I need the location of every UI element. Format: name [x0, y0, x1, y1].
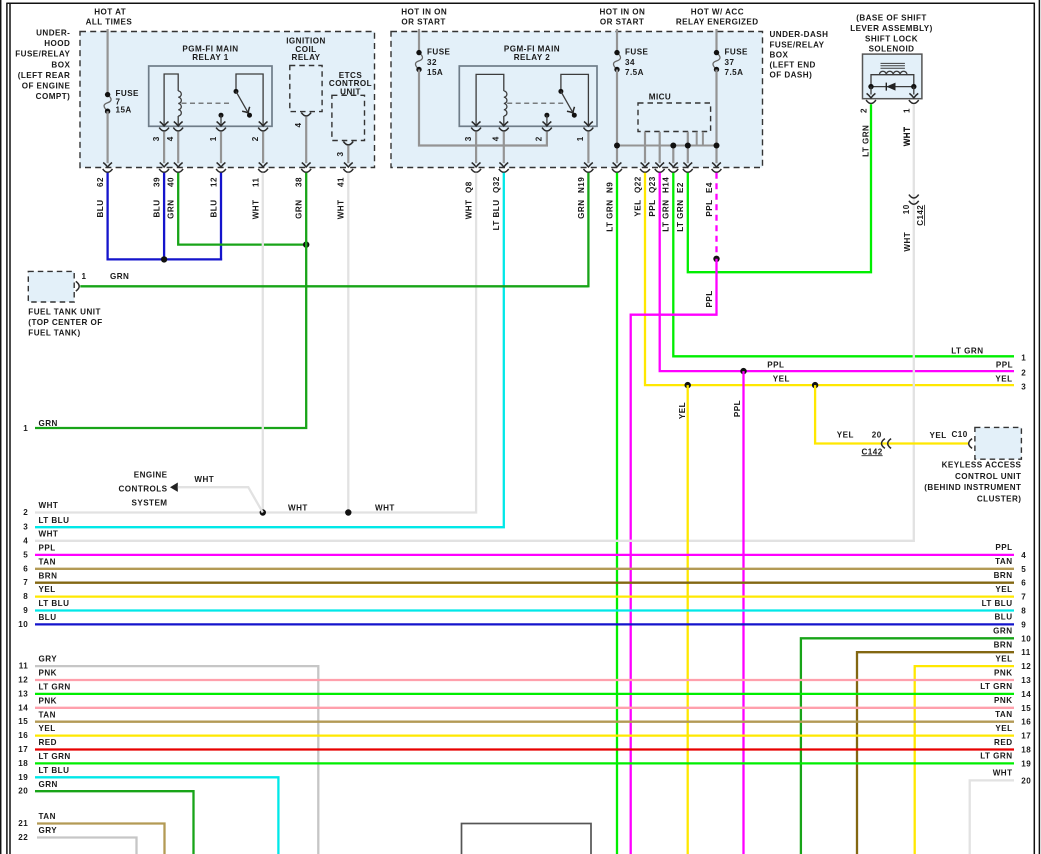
- wire YEL down from row 3 left: [687, 385, 689, 854]
- wire GRN from N19: [587, 173, 589, 288]
- svg-text:TAN: TAN: [995, 557, 1012, 566]
- svg-text:20: 20: [872, 430, 882, 439]
- svg-text:UNDER-DASH: UNDER-DASH: [770, 30, 829, 39]
- fuse 34 label: [625, 48, 649, 77]
- wire YEL to keyless access unit: [815, 385, 968, 443]
- svg-text:4: 4: [23, 536, 28, 545]
- svg-text:BRN: BRN: [994, 571, 1013, 580]
- row 13 LT GRN full width: [18, 682, 1031, 699]
- svg-text:SYSTEM: SYSTEM: [132, 499, 168, 508]
- svg-text:LT BLU: LT BLU: [39, 766, 70, 775]
- svg-text:FUEL TANK): FUEL TANK): [28, 329, 80, 338]
- svg-text:ALL TIMES: ALL TIMES: [86, 18, 133, 27]
- relay 1 pin 1 contact: [219, 113, 224, 126]
- svg-text:11: 11: [252, 177, 261, 187]
- svg-text:4: 4: [492, 136, 501, 141]
- svg-text:(LEFT REAR: (LEFT REAR: [18, 71, 71, 80]
- svg-text:22: 22: [18, 833, 28, 842]
- svg-text:16: 16: [18, 731, 28, 740]
- fuel tank unit box: [28, 271, 74, 302]
- svg-text:MICU: MICU: [649, 93, 671, 102]
- wires relay 1 pins to box bottom: [160, 132, 268, 167]
- svg-text:LT GRN: LT GRN: [951, 346, 983, 355]
- wire PPL E4 reroute: [631, 259, 717, 854]
- svg-text:YEL: YEL: [837, 430, 854, 439]
- splice PPL E4: [713, 256, 719, 262]
- wire GRN from 38 to row 1: [35, 173, 306, 428]
- solenoid coil: [879, 71, 907, 74]
- fuel tank unit label: [28, 308, 102, 338]
- svg-text:LT BLU: LT BLU: [39, 516, 70, 525]
- svg-text:PPL: PPL: [995, 543, 1012, 552]
- svg-text:LT GRN: LT GRN: [662, 200, 671, 232]
- svg-text:LT GRN: LT GRN: [980, 752, 1012, 761]
- svg-text:(BEHIND INSTRUMENT: (BEHIND INSTRUMENT: [924, 483, 1021, 492]
- svg-text:TAN: TAN: [39, 557, 56, 566]
- fuse F37 7.5A: [713, 50, 720, 72]
- svg-text:RELAY 1: RELAY 1: [192, 53, 228, 62]
- svg-text:4: 4: [166, 136, 175, 141]
- under-hood fuse/relay box: [80, 32, 375, 168]
- svg-text:15: 15: [1021, 704, 1031, 713]
- svg-text:1: 1: [23, 424, 28, 433]
- svg-text:20: 20: [1021, 776, 1031, 785]
- wire WHT from 11: [262, 173, 264, 513]
- wire WHT from 41: [347, 173, 349, 513]
- svg-text:FUSE/RELAY: FUSE/RELAY: [770, 40, 825, 49]
- svg-text:LT BLU: LT BLU: [982, 599, 1013, 608]
- svg-text:WHT: WHT: [993, 769, 1013, 778]
- row 8 YEL full width: [23, 585, 1026, 602]
- solenoid pins to box bottom: [867, 87, 919, 98]
- svg-text:LT GRN: LT GRN: [676, 200, 685, 232]
- engine controls arrow: [170, 483, 178, 492]
- keyless box edge connector: [969, 439, 972, 449]
- wire ign relay pin 4 to box bottom: [302, 117, 311, 167]
- svg-text:40: 40: [167, 177, 176, 187]
- MICU stub pins to bus: [697, 132, 703, 146]
- svg-text:LT BLU: LT BLU: [492, 200, 501, 231]
- MICU box: [638, 103, 711, 132]
- wire PPL dashed from E4: [715, 173, 717, 259]
- relay 1 title: [182, 45, 238, 63]
- svg-text:TAN: TAN: [39, 710, 56, 719]
- relay 2 pin 2 contact: [544, 113, 549, 126]
- svg-text:E4: E4: [705, 182, 714, 193]
- ETCS label: [329, 71, 372, 97]
- svg-text:15A: 15A: [116, 106, 132, 115]
- svg-text:LEVER ASSEMBLY): LEVER ASSEMBLY): [850, 24, 933, 33]
- svg-text:13: 13: [18, 689, 28, 698]
- svg-text:21: 21: [18, 819, 28, 828]
- svg-text:PPL: PPL: [767, 360, 784, 369]
- svg-text:COMPT): COMPT): [36, 92, 71, 101]
- svg-text:41: 41: [337, 177, 346, 187]
- svg-text:4: 4: [1021, 551, 1026, 560]
- solenoid core: [881, 63, 905, 68]
- svg-text:GRY: GRY: [39, 826, 58, 835]
- ignition coil relay pin 4 connector: [301, 113, 311, 116]
- connector C142 in YEL wire: [882, 439, 892, 449]
- svg-text:C142: C142: [916, 205, 925, 226]
- svg-text:7: 7: [23, 578, 28, 587]
- svg-text:YEL: YEL: [39, 585, 56, 594]
- row 2 WHT left: [23, 501, 58, 517]
- svg-text:TAN: TAN: [39, 812, 56, 821]
- wire fuse 32 to relay 2 pin 2: [419, 70, 547, 146]
- relay 1 switch branch: [236, 74, 263, 126]
- relay PGM-FI MAIN RELAY 1: [149, 66, 272, 126]
- row GRN 10 right: [801, 627, 1031, 854]
- svg-text:(LEFT END: (LEFT END: [770, 61, 816, 70]
- relay 2 title: [504, 45, 560, 63]
- svg-text:5: 5: [23, 550, 28, 559]
- svg-text:WHT: WHT: [252, 200, 261, 220]
- junction WHT row2 pin41: [345, 509, 351, 515]
- svg-text:4: 4: [294, 123, 303, 128]
- svg-text:CLUSTER): CLUSTER): [977, 494, 1022, 503]
- svg-text:WHT: WHT: [39, 529, 59, 538]
- wire BLU bus: [107, 258, 223, 260]
- svg-text:2: 2: [1021, 369, 1026, 378]
- svg-text:E2: E2: [676, 182, 685, 193]
- engine controls system label: [118, 471, 167, 508]
- svg-text:FUSE: FUSE: [427, 48, 451, 57]
- row 7 BRN full width: [23, 571, 1026, 588]
- svg-text:32: 32: [427, 58, 437, 67]
- svg-text:SHIFT LOCK: SHIFT LOCK: [865, 34, 918, 43]
- svg-text:17: 17: [1021, 732, 1031, 741]
- svg-text:BLU: BLU: [995, 613, 1013, 622]
- row 19 LT BLU left: [18, 766, 278, 854]
- fuse F34 7.5A: [613, 50, 620, 72]
- svg-text:2: 2: [860, 108, 869, 113]
- junction YEL row 3 left: [685, 382, 691, 388]
- hot in on or start label (fuse 32): [401, 8, 447, 27]
- row 1 GRN left: [23, 419, 58, 433]
- svg-text:5: 5: [1021, 565, 1026, 574]
- svg-text:8: 8: [1021, 607, 1026, 616]
- svg-text:PNK: PNK: [994, 696, 1012, 705]
- row 3 LT BLU left: [23, 516, 69, 532]
- svg-text:14: 14: [1021, 690, 1031, 699]
- shift lock solenoid box: [863, 54, 922, 99]
- solenoid diode junctions: [868, 84, 916, 89]
- svg-text:H14: H14: [662, 177, 671, 193]
- relay 2 pin numbers 3 4 2 1: [464, 136, 585, 141]
- svg-text:9: 9: [1021, 620, 1026, 629]
- svg-text:FUSE/RELAY: FUSE/RELAY: [15, 50, 70, 59]
- wires relay 2 pins 3 4 1 to box bottom: [472, 132, 593, 167]
- wire BLU from 12: [220, 173, 222, 261]
- box 1 wire color labels: [96, 200, 346, 220]
- svg-text:PPL: PPL: [996, 360, 1013, 369]
- svg-text:3: 3: [464, 136, 473, 141]
- svg-text:BLU: BLU: [209, 200, 218, 218]
- svg-text:Q32: Q32: [492, 176, 501, 193]
- row 16 YEL full width: [18, 724, 1031, 741]
- wire PPL from Q23 to row 2: [660, 173, 1014, 371]
- svg-text:YEL: YEL: [678, 402, 687, 419]
- relay 1 pin numbers 3 4 1 2: [152, 136, 260, 141]
- svg-text:18: 18: [1021, 746, 1031, 755]
- svg-text:C142: C142: [862, 447, 883, 456]
- svg-text:WHT: WHT: [375, 503, 395, 512]
- svg-text:19: 19: [18, 773, 28, 782]
- relay 1 coil: [178, 91, 181, 116]
- svg-text:2: 2: [535, 136, 544, 141]
- wire LT GRN from N9: [616, 173, 618, 854]
- svg-text:PNK: PNK: [994, 668, 1012, 677]
- fuse 32 label: [427, 48, 451, 77]
- svg-text:GRY: GRY: [39, 655, 58, 664]
- svg-text:17: 17: [18, 745, 28, 754]
- under-dash fuse/relay box label: [770, 30, 829, 79]
- svg-text:BLU: BLU: [39, 613, 57, 622]
- svg-text:HOT IN ON: HOT IN ON: [401, 8, 447, 17]
- junction PPL row 2: [740, 368, 746, 374]
- wire GRN fuel tank to N19: [80, 285, 588, 287]
- svg-text:15A: 15A: [427, 68, 443, 77]
- svg-text:BOX: BOX: [51, 60, 70, 69]
- svg-text:9: 9: [23, 606, 28, 615]
- ignition coil relay box: [290, 66, 322, 112]
- svg-text:Q22: Q22: [633, 176, 642, 193]
- relay 2 switch pivot: [558, 89, 563, 94]
- row 18 LT GRN full width: [18, 752, 1031, 769]
- row 20 GRN left: [18, 780, 193, 854]
- svg-text:GRN: GRN: [110, 272, 129, 281]
- svg-text:PPL: PPL: [39, 544, 56, 553]
- row 12 PNK full width: [18, 668, 1031, 685]
- svg-text:YEL: YEL: [633, 200, 642, 217]
- svg-text:PNK: PNK: [39, 696, 57, 705]
- solenoid pin numbers 2 1: [860, 108, 912, 113]
- svg-text:RELAY: RELAY: [292, 53, 321, 62]
- fuse F32 15A: [415, 50, 422, 72]
- svg-text:YEL: YEL: [995, 654, 1012, 663]
- svg-text:OF ENGINE: OF ENGINE: [22, 81, 71, 90]
- svg-text:RELAY 2: RELAY 2: [514, 53, 550, 62]
- box 2 pin ids Q8 Q32 N19 N9 Q22 Q23 H14 E2 E4: [465, 176, 714, 193]
- svg-text:PPL: PPL: [705, 290, 714, 307]
- fuse 7 label: [116, 89, 140, 114]
- arrow into 62: [103, 163, 112, 168]
- svg-text:BRN: BRN: [39, 571, 58, 580]
- svg-text:10: 10: [18, 620, 28, 629]
- ignition coil relay label: [286, 36, 326, 62]
- wire fuse 34 to connector N9: [613, 70, 622, 168]
- svg-text:GRN: GRN: [39, 419, 58, 428]
- svg-text:Q8: Q8: [465, 181, 474, 193]
- svg-text:WHT: WHT: [465, 200, 474, 220]
- solenoid wire color labels: [862, 125, 912, 157]
- svg-text:YEL: YEL: [995, 724, 1012, 733]
- ETCS pin 3 connector: [343, 142, 353, 145]
- svg-text:7: 7: [1021, 593, 1026, 602]
- ETCS control unit box: [332, 95, 365, 140]
- svg-text:11: 11: [19, 662, 29, 671]
- svg-text:FUSE: FUSE: [625, 48, 649, 57]
- svg-text:6: 6: [1021, 579, 1026, 588]
- svg-text:OR START: OR START: [401, 18, 445, 27]
- svg-text:YEL: YEL: [39, 724, 56, 733]
- wire YEL from Q22 to row 3: [645, 173, 1014, 385]
- svg-text:PPL: PPL: [648, 200, 657, 217]
- row WHT 20 right: [970, 769, 1032, 854]
- row BRN 11 right: [857, 641, 1031, 854]
- row 21 TAN left: [18, 812, 164, 854]
- svg-text:39: 39: [153, 177, 162, 187]
- svg-text:FUSE: FUSE: [725, 48, 749, 57]
- svg-text:OF DASH): OF DASH): [770, 71, 813, 80]
- relay 2 armature dashed link: [507, 102, 563, 104]
- svg-text:GRN: GRN: [167, 200, 176, 219]
- row 10 BLU full width: [18, 613, 1026, 630]
- svg-text:TAN: TAN: [995, 710, 1012, 719]
- wire fuse 37 to connector E4: [712, 70, 721, 168]
- svg-text:1: 1: [1021, 353, 1026, 362]
- svg-text:7.5A: 7.5A: [625, 68, 644, 77]
- MICU pin wire to Q22: [641, 132, 650, 167]
- relay 1 armature dashed link: [182, 102, 232, 104]
- svg-text:LT GRN: LT GRN: [980, 682, 1012, 691]
- svg-text:BOX: BOX: [770, 50, 789, 59]
- MICU pin wire to Q23: [655, 132, 664, 167]
- svg-text:GRN: GRN: [295, 200, 304, 219]
- svg-text:LT GRN: LT GRN: [39, 752, 71, 761]
- svg-text:37: 37: [725, 58, 735, 67]
- row 4 WHT left: [23, 529, 58, 545]
- bus junction at H14: [670, 143, 676, 149]
- svg-text:2: 2: [251, 136, 260, 141]
- svg-text:62: 62: [96, 177, 105, 187]
- svg-text:3: 3: [152, 136, 161, 141]
- svg-text:ENGINE: ENGINE: [134, 471, 168, 480]
- svg-text:UNDER-: UNDER-: [36, 29, 70, 38]
- row 6 TAN full width: [23, 557, 1026, 574]
- fuse 7 feed wire: [106, 29, 108, 95]
- svg-text:WHT: WHT: [903, 232, 912, 252]
- fuse 37 label: [725, 48, 749, 77]
- svg-text:19: 19: [1021, 759, 1031, 768]
- svg-text:N19: N19: [577, 177, 586, 193]
- svg-text:16: 16: [1021, 718, 1031, 727]
- svg-text:10: 10: [902, 204, 911, 214]
- bus junction at E2: [685, 143, 691, 149]
- svg-text:1: 1: [902, 108, 911, 113]
- fuse F7 15A: [104, 92, 111, 114]
- svg-text:YEL: YEL: [995, 375, 1012, 384]
- unlabeled component box bottom center: [462, 824, 592, 854]
- wire WHT from Q8 to row 2: [35, 173, 476, 513]
- box 2 wire color labels: [465, 200, 714, 232]
- svg-text:3: 3: [1021, 382, 1026, 391]
- svg-text:GRN: GRN: [993, 627, 1012, 636]
- svg-text:RED: RED: [39, 738, 57, 747]
- box 2 bottom connectors: [471, 169, 721, 172]
- svg-text:1: 1: [82, 272, 87, 281]
- svg-text:BLU: BLU: [153, 200, 162, 218]
- svg-text:2: 2: [23, 508, 28, 517]
- svg-text:18: 18: [18, 759, 28, 768]
- hot w/acc relay energized label: [676, 8, 759, 27]
- svg-text:20: 20: [18, 787, 28, 796]
- relay PGM-FI MAIN RELAY 2: [459, 66, 597, 126]
- row 9 LT BLU full width: [23, 599, 1026, 616]
- relay 2 blade end contact: [572, 113, 577, 118]
- relay 2 coil: [504, 91, 507, 116]
- box 1 pin ids 62 39 40 12 11 38 41: [96, 177, 346, 187]
- svg-text:WHT: WHT: [337, 200, 346, 220]
- svg-text:WHT: WHT: [194, 475, 214, 484]
- box 1 bottom connectors: [103, 169, 354, 172]
- svg-text:BRN: BRN: [994, 641, 1013, 650]
- solenoid diode: [886, 83, 895, 91]
- relay 2 coil to pin 4: [503, 116, 505, 126]
- junction BLU at 39: [161, 256, 167, 262]
- svg-text:GRN: GRN: [39, 780, 58, 789]
- svg-text:7.5A: 7.5A: [725, 68, 744, 77]
- row 2 right labels PPL: [996, 360, 1026, 377]
- svg-text:11: 11: [1021, 648, 1031, 657]
- svg-text:WHT: WHT: [288, 503, 308, 512]
- svg-text:YEL: YEL: [995, 585, 1012, 594]
- svg-text:HOT IN ON: HOT IN ON: [599, 8, 645, 17]
- svg-text:LT BLU: LT BLU: [39, 599, 70, 608]
- svg-text:KEYLESS ACCESS: KEYLESS ACCESS: [942, 461, 1022, 470]
- svg-text:8: 8: [23, 592, 28, 601]
- svg-text:HOT AT: HOT AT: [94, 8, 126, 17]
- junction WHT row2 pin11: [260, 509, 266, 515]
- wire PPL down from row 2: [742, 371, 744, 854]
- row 14 PNK full width: [18, 696, 1031, 713]
- bus junction at fuse 34: [614, 143, 620, 149]
- keyless access control unit label: [924, 461, 1021, 504]
- wire BLU from 62: [106, 173, 108, 261]
- wire LT BLU from Q32 to row 3: [35, 173, 504, 527]
- svg-text:6: 6: [23, 564, 28, 573]
- wire ETCS pin 3 to box bottom: [344, 146, 353, 167]
- row 15 TAN full width: [18, 710, 1031, 727]
- shift lock solenoid label: [850, 14, 933, 54]
- wire GRN from 40: [178, 173, 306, 245]
- svg-text:PPL: PPL: [705, 200, 714, 217]
- hot in on or start label (fuse 34): [599, 8, 645, 27]
- junction YEL row 3 right: [812, 382, 818, 388]
- relay 2 coil branch: [476, 74, 504, 126]
- svg-text:UNIT: UNIT: [340, 88, 361, 97]
- relay 2 bottom arrows: [472, 122, 593, 127]
- row 17 RED full width: [18, 738, 1031, 755]
- svg-text:WHT: WHT: [903, 127, 912, 147]
- svg-text:13: 13: [1021, 676, 1031, 685]
- relay 1 coil to pin 4: [177, 116, 179, 126]
- relay 1 bottom arrows: [160, 122, 268, 127]
- relay 1 blade end contact: [247, 113, 252, 118]
- solenoid pin connectors: [866, 100, 919, 103]
- wire fuse7 to connector 62: [106, 111, 108, 163]
- wire WHT from solenoid pin 1 to row 4: [35, 104, 914, 541]
- svg-text:(TOP CENTER OF: (TOP CENTER OF: [28, 318, 102, 327]
- svg-text:14: 14: [18, 703, 28, 712]
- row 22 GRY left: [18, 826, 136, 854]
- svg-text:15: 15: [18, 717, 28, 726]
- svg-text:BLU: BLU: [96, 200, 105, 218]
- under-hood fuse/relay box label: [15, 29, 70, 101]
- svg-text:Q23: Q23: [648, 176, 657, 193]
- svg-text:YEL: YEL: [773, 374, 790, 383]
